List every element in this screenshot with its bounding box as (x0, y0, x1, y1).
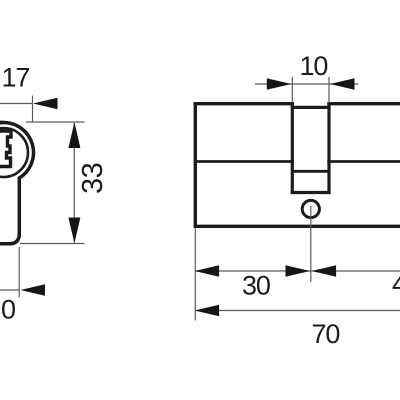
dim 10 (cam): left extension line (291, 77, 293, 103)
side view: cam inner line (292, 170, 329, 173)
side view: center line (310, 206, 312, 282)
dim 10 (front bottom): extension line (18, 247, 20, 298)
svg-text:70: 70 (312, 319, 340, 349)
side view: body left edge (194, 102, 197, 228)
dim 30/40: shared dimension line (195, 270, 400, 272)
side view: body bottom edge (195, 225, 400, 228)
dim 30: left arrowhead (195, 265, 220, 277)
side view: body mid line right segment (327, 160, 400, 163)
dim 10 (cam): dimension line (255, 83, 359, 85)
side view: cam ring left edge (291, 102, 294, 194)
dim 40: left arrowhead (312, 265, 337, 277)
svg-text:30: 30 (242, 271, 270, 301)
side view: cam ring right edge (327, 102, 330, 194)
dim 33: top extension line (26, 121, 85, 123)
dim 70: left arrowhead (195, 305, 220, 317)
svg-text:10: 10 (300, 51, 328, 81)
svg-text:33: 33 (77, 163, 109, 194)
dim 33: top arrowhead (68, 122, 80, 148)
front view: keyway profile (0, 131, 11, 167)
dim 33: dimension line (73, 123, 75, 243)
svg-text:40: 40 (392, 269, 400, 299)
dim 17: dimension line (0, 103, 33, 105)
side view: body top edge right segment (327, 102, 400, 105)
side view: body mid line left segment (195, 160, 294, 163)
side view: fixing screw hole (302, 200, 319, 217)
front view: plug inner circle (0, 128, 28, 177)
svg-text:0: 0 (1, 295, 15, 325)
dim 10 (cam): right arrowhead (330, 78, 355, 90)
dim 17: arrowhead (33, 98, 58, 110)
side view: cam bottom edge (291, 191, 331, 194)
dim 17: extension line (32, 96, 34, 123)
svg-text:17: 17 (2, 63, 30, 93)
dim 10 (front bottom): dimension line (0, 289, 20, 291)
dims 30/70: left extension line (194, 228, 196, 321)
dim 10 (front bottom): arrowhead (21, 284, 46, 296)
front view: outer circle left arc (cropped) (0, 123, 4, 179)
dim 30: right arrowhead (286, 265, 311, 277)
dim 33: bottom extension line (20, 243, 85, 245)
side view: cam ring top edge (291, 106, 331, 109)
side view: body top edge left segment (194, 102, 294, 105)
dim 10 (cam): left arrowhead (267, 78, 292, 90)
dim 70: dimension line (195, 310, 400, 312)
front view: cylinder profile outline (0, 123, 33, 244)
dim 10 (cam): right extension line (328, 77, 330, 103)
dim 33: bottom arrowhead (68, 218, 80, 244)
